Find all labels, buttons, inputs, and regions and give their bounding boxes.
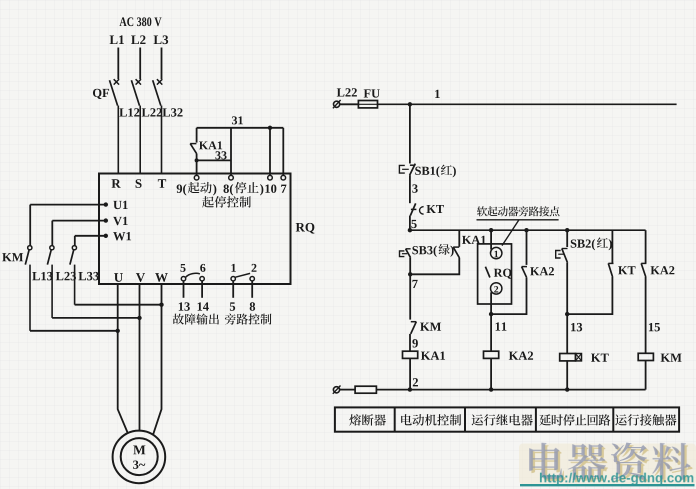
terminal line2 xyxy=(333,386,341,394)
terminal V xyxy=(136,273,145,282)
node 5 xyxy=(411,220,416,228)
breaker QF pole L1 xyxy=(110,79,120,174)
label KM coil xyxy=(661,354,682,362)
coil KT (delay) xyxy=(560,354,582,361)
wire L22-FU xyxy=(340,103,359,105)
label start-stop control xyxy=(202,196,251,208)
relay coil KA1 xyxy=(403,351,418,358)
label KA2 coil xyxy=(509,352,533,360)
wire node 33 xyxy=(197,159,231,161)
pushbutton SB2 (NC red) xyxy=(556,230,568,263)
wire 11 xyxy=(490,314,492,351)
stub 8 xyxy=(251,281,253,298)
contactor aux contact KM xyxy=(411,322,417,334)
terminal 7c xyxy=(281,175,286,180)
relay contact KA2 (right) xyxy=(641,230,646,353)
wire 7up xyxy=(409,258,411,275)
stub 13 xyxy=(183,281,185,298)
breaker QF pole L3 xyxy=(153,79,163,174)
junction node13 xyxy=(565,312,569,316)
label 14 xyxy=(198,302,209,310)
junction bus2 c xyxy=(565,387,569,391)
legend run relay xyxy=(472,414,533,426)
terminal 8 xyxy=(229,175,234,180)
fuse line2 xyxy=(340,386,646,393)
junction node 31 xyxy=(268,126,272,130)
legend run contactor xyxy=(615,414,676,426)
relay contact KA1 (31-33) xyxy=(190,128,197,176)
node L2 xyxy=(131,35,145,44)
label FU xyxy=(364,89,380,97)
label terminal 9 (start) xyxy=(177,182,217,196)
wire L3 drop xyxy=(161,48,163,80)
wire 7down xyxy=(409,274,411,319)
legend sep4 xyxy=(612,407,614,431)
legend sep1 xyxy=(394,407,396,431)
label terminal 7 xyxy=(281,185,286,193)
legend sep3 xyxy=(535,407,537,431)
rq terminal 1 xyxy=(491,247,502,258)
label line 1 xyxy=(435,90,440,98)
junction bus5 d xyxy=(565,228,569,232)
node L33 xyxy=(78,272,98,280)
node 15 xyxy=(649,323,660,331)
terminal T xyxy=(158,179,166,188)
label KA2 right xyxy=(651,266,675,274)
rq blade xyxy=(485,267,490,278)
relay contact KA2 (mid) xyxy=(491,230,527,314)
junction node7 xyxy=(408,272,412,276)
junction line1 xyxy=(408,102,412,106)
label 2 in-box xyxy=(252,264,257,272)
junction bus5 a xyxy=(408,228,412,232)
label 5b xyxy=(230,302,235,310)
wire 3 xyxy=(409,175,411,203)
label terminal 10 xyxy=(265,184,276,192)
legend fuse xyxy=(349,414,386,426)
terminal 9 xyxy=(194,175,199,180)
label QF xyxy=(93,89,109,99)
terminal R xyxy=(112,179,121,188)
wire 13down xyxy=(566,314,568,353)
node L23 xyxy=(56,272,76,280)
node 13 xyxy=(571,323,582,331)
node L32 xyxy=(162,108,182,116)
junction node 33 xyxy=(195,158,199,162)
stub 14 xyxy=(201,281,203,298)
wire U to motor xyxy=(118,284,128,434)
label SB2 xyxy=(571,237,612,250)
watermark big text xyxy=(529,443,692,483)
watermark url xyxy=(540,473,693,485)
wire line 1 xyxy=(378,103,677,105)
junction bus2 b xyxy=(489,387,493,391)
wire L1 drop xyxy=(117,48,119,80)
label SB1 xyxy=(415,165,456,178)
timer contact KT (NO branch) xyxy=(567,230,613,314)
legend sep2 xyxy=(464,407,466,431)
terminal W1 xyxy=(104,232,132,240)
label 31 xyxy=(232,116,243,124)
node L12 xyxy=(119,108,139,116)
fault output contact (5-6) xyxy=(181,273,204,281)
soft starter bypass box RQ xyxy=(478,244,512,304)
terminal L22 xyxy=(333,100,341,108)
node L3 xyxy=(154,35,169,44)
wire kt down xyxy=(566,361,568,390)
label KA1 seal xyxy=(462,236,486,244)
rq terminal 2 xyxy=(491,283,502,294)
wire main drop xyxy=(409,104,411,163)
terminal V1 xyxy=(104,217,128,225)
terminal 10c xyxy=(268,175,273,180)
contactor KM pole 2 xyxy=(47,246,54,318)
node 9 xyxy=(412,339,417,347)
label terminal 8 (stop) xyxy=(224,182,264,196)
junction bus5 c xyxy=(524,228,528,232)
pushbutton SB3 (NO green) xyxy=(400,249,411,258)
motor M 3~ xyxy=(113,431,166,484)
label RQ xyxy=(296,223,315,234)
label RQ contact xyxy=(494,269,512,279)
label KA1 contact xyxy=(199,141,222,149)
wire U1 out xyxy=(30,205,106,246)
node 3 xyxy=(412,184,417,192)
legend motor control xyxy=(401,414,461,426)
node 7 xyxy=(412,280,417,288)
label fault output xyxy=(173,313,219,324)
node 11 xyxy=(496,322,507,330)
label 5 in-box xyxy=(180,264,185,272)
wire to terminal 10 xyxy=(269,128,271,176)
pushbutton SB1 (NC red) xyxy=(399,164,415,176)
wire to terminal 7 xyxy=(282,128,284,176)
junction bus5 b xyxy=(489,228,493,232)
wire KM3 to W xyxy=(75,303,164,307)
label AC 380 V xyxy=(119,17,161,26)
terminal U xyxy=(114,273,123,282)
fuse FU xyxy=(358,101,377,108)
label KT coil xyxy=(591,354,609,362)
wire V1 out xyxy=(52,221,106,246)
wire to terminal 8 xyxy=(230,128,232,176)
label 1 in-box xyxy=(231,264,235,272)
wire KM2 to V xyxy=(52,316,142,320)
terminal U1 xyxy=(104,201,128,209)
terminal S xyxy=(136,179,142,188)
label 13 xyxy=(179,302,190,310)
contactor KM pole 1 xyxy=(25,246,32,331)
label 8b xyxy=(250,302,255,310)
underline bypass xyxy=(477,219,559,221)
wire rq top xyxy=(490,230,492,249)
soft starter RQ box xyxy=(99,174,291,285)
watermark glow xyxy=(519,444,696,485)
junction node11 xyxy=(489,312,493,316)
wire W to motor xyxy=(153,284,162,435)
node L13 xyxy=(32,272,52,280)
contactor coil KM xyxy=(638,353,653,360)
node L22 label xyxy=(337,88,357,96)
watermark underline xyxy=(520,484,695,486)
label KT branch xyxy=(618,266,635,274)
legend delay stop circuit xyxy=(539,414,610,426)
wire rq bottom xyxy=(490,292,492,314)
wire L2 drop xyxy=(139,48,141,80)
bypass contact (1-2) xyxy=(231,273,254,281)
wire bus node5 xyxy=(410,229,646,231)
relay coil KA2 xyxy=(484,351,499,358)
label 33 xyxy=(215,151,226,159)
junction bus2 a xyxy=(408,387,412,391)
label KT nc xyxy=(427,205,444,213)
label SB3 xyxy=(412,244,453,257)
wire V to motor xyxy=(139,284,141,431)
wire 5 xyxy=(409,216,411,231)
node 2 xyxy=(413,378,418,386)
legend table frame xyxy=(335,407,679,431)
wire ka2 down xyxy=(490,358,492,389)
label bypass control xyxy=(225,314,272,325)
pointer bypass xyxy=(502,220,519,246)
wire 13up xyxy=(566,263,568,314)
stub 5 xyxy=(232,281,234,298)
wire km down xyxy=(645,361,647,390)
node L22 xyxy=(142,108,162,116)
label 6 in-box xyxy=(200,264,205,272)
label KA1 coil xyxy=(421,352,445,360)
node L1 xyxy=(110,35,124,44)
wire node 31 xyxy=(197,127,284,129)
timer contact KT (NC) xyxy=(410,203,423,215)
terminal W xyxy=(155,273,168,282)
label KM main xyxy=(2,253,23,261)
wire KM1 to U xyxy=(30,329,120,333)
wire W1 out xyxy=(75,236,106,246)
relay contact KA1 (seal-in) xyxy=(410,230,459,274)
wire 9 xyxy=(409,334,411,351)
breaker QF pole L2 xyxy=(131,79,141,174)
contactor KM pole 3 xyxy=(70,246,77,305)
label KM aux xyxy=(420,323,441,331)
label soft starter bypass xyxy=(477,206,560,216)
wire 2 xyxy=(409,358,411,389)
label KA2 mid xyxy=(530,267,554,275)
